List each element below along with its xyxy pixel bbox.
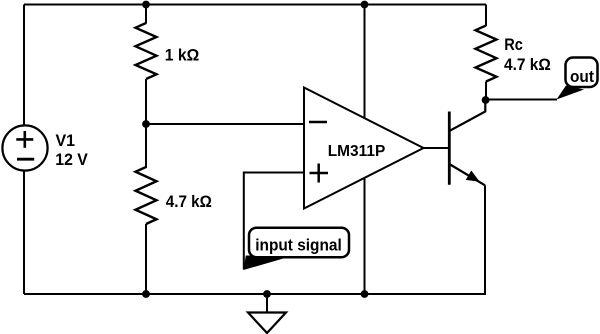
svg-text:input signal: input signal <box>255 236 342 255</box>
svg-text:out: out <box>570 67 594 86</box>
wire bottom rail <box>24 293 486 295</box>
node A: R1 / R2 / inverting input <box>142 120 150 128</box>
wire R2 to bottom rail <box>145 224 147 294</box>
op-amp U1 LM311P <box>304 88 424 209</box>
node: top rail / power junction <box>361 1 369 9</box>
transistor Q1 <box>449 100 485 185</box>
svg-text:4.7 kΩ: 4.7 kΩ <box>504 55 551 74</box>
wire node A to inverting input <box>146 123 304 125</box>
wire op-amp power vertical <box>364 5 366 295</box>
wire op-amp output to base <box>424 147 449 149</box>
node: collector / Rc / out <box>482 96 490 104</box>
wire emitter to bottom rail <box>484 185 486 294</box>
resistor R2 4.7 kOhm <box>136 167 157 224</box>
resistor Rc 4.7 kOhm <box>476 26 497 82</box>
wire left branch (top rail to V1) <box>23 5 25 126</box>
node: top rail / R1 junction <box>142 1 150 9</box>
node: R2 / bottom rail <box>142 290 150 298</box>
svg-text:4.7 kΩ: 4.7 kΩ <box>166 192 212 211</box>
ground <box>248 294 286 333</box>
wire node A to R2 <box>145 124 147 168</box>
svg-text:1 kΩ: 1 kΩ <box>165 45 200 64</box>
svg-text:LM311P: LM311P <box>328 143 386 160</box>
node: ground / bottom rail <box>263 290 271 298</box>
wire V1 to bottom rail <box>23 171 25 294</box>
out callout <box>557 58 598 100</box>
wire R1 to node A <box>145 79 147 124</box>
wire top rail to Rc <box>485 5 487 27</box>
svg-text:Rc: Rc <box>504 35 523 54</box>
voltage source V1 <box>2 125 47 170</box>
wire top rail <box>24 4 486 6</box>
resistor R1 1 kOhm <box>136 23 157 79</box>
node: power / bottom rail <box>361 290 369 298</box>
wire Rc to collector node <box>485 82 487 101</box>
svg-text:12 V: 12 V <box>55 150 88 169</box>
input signal callout <box>244 228 350 270</box>
wire top rail to R1 <box>145 5 147 24</box>
wire noninverting input <box>244 173 304 270</box>
svg-text:V1: V1 <box>56 131 76 150</box>
wire collector node to out <box>486 99 557 101</box>
